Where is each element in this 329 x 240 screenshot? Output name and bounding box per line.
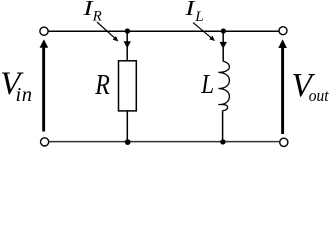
svg-text:L: L — [200, 68, 214, 99]
svg-text:R: R — [94, 69, 110, 101]
svg-text:R: R — [92, 9, 102, 25]
svg-text:L: L — [194, 9, 203, 25]
svg-text:I: I — [184, 0, 196, 20]
svg-text:out: out — [309, 86, 329, 105]
svg-text:in: in — [16, 84, 33, 106]
